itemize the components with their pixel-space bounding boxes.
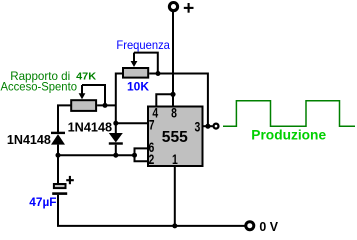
node rail / pins 6-2 bracket [132, 153, 137, 158]
plus label of supply [184, 3, 194, 13]
node D1 / capacitor [56, 153, 61, 158]
wire 47K left lead down to diode D1 [58, 105, 71, 132]
positive supply terminal [169, 3, 177, 11]
svg-text:47K: 47K [76, 70, 96, 82]
node pin 3 / feedback wire [205, 124, 210, 129]
10K wiper link wire [134, 53, 158, 74]
47K wiper arrow [81, 85, 83, 94]
svg-text:1N4148: 1N4148 [68, 120, 113, 135]
bottom threshold rail wire [58, 154, 135, 156]
wire to pin 4 [156, 94, 173, 106]
svg-text:Frequenza: Frequenza [116, 38, 170, 52]
wire from 10K right lead to pin 3 node [149, 74, 208, 127]
wire from +V terminal down to pins 4/8 node [172, 11, 174, 95]
wire C1 to ground rail [58, 195, 247, 226]
node at pins 4/8 branch [170, 92, 175, 97]
svg-text:2: 2 [149, 152, 155, 167]
wire pin 3 to output terminal [204, 125, 213, 127]
junction dot 47K right lead / wiper [103, 103, 108, 108]
node pin 7 junction [113, 121, 118, 126]
0V terminal [246, 222, 254, 230]
svg-text:1N4148: 1N4148 [7, 132, 51, 147]
47K wiper link wire [82, 85, 105, 105]
svg-text:1: 1 [172, 152, 178, 167]
capacitor C1 47uF electrolytic [52, 184, 67, 195]
potentiometer VR1 10K body [123, 68, 148, 78]
wire to pin 7 [116, 122, 148, 124]
svg-text:Produzione: Produzione [251, 127, 326, 143]
10K wiper arrow [133, 53, 135, 62]
svg-text:0 V: 0 V [259, 220, 278, 234]
output square wave [223, 101, 355, 127]
node pin 1 / ground rail [172, 223, 177, 228]
IC U1 555 body [148, 107, 203, 167]
wire pin 1 to ground rail [174, 167, 176, 226]
svg-text:Acceso-Spento: Acceso-Spento [1, 80, 78, 94]
diode D2 1N4148 (pointing down, cathode bar below) [109, 123, 123, 155]
capacitor C1 lead from rail [57, 155, 59, 183]
output terminal [214, 124, 219, 129]
potentiometer VR2 47K body [71, 100, 96, 111]
wire 10K left lead down to pin 7 node [116, 74, 122, 124]
svg-text:10K: 10K [127, 82, 150, 94]
svg-text:7: 7 [149, 118, 155, 133]
wire to pin 8 [172, 94, 174, 106]
plus polarity mark of C1 [66, 176, 74, 184]
junction dot 10K right lead / wiper [156, 71, 161, 76]
node D2 on rail [113, 153, 118, 158]
svg-text:8: 8 [171, 105, 177, 120]
svg-text:555: 555 [162, 129, 188, 146]
wire 47K right lead [97, 104, 116, 106]
svg-text:3: 3 [195, 119, 201, 134]
wire bracket to pins 6 and 2 [135, 148, 148, 161]
svg-text:47µF: 47µF [29, 197, 56, 209]
diode D1 1N4148 (cathode bar up, pointing up) [51, 132, 65, 156]
